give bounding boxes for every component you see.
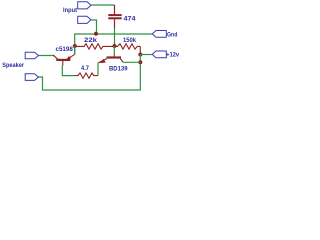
wire Q1 base to R3 bbox=[62, 66, 75, 76]
svg-text:150k: 150k bbox=[123, 37, 136, 44]
node junction divider bbox=[113, 44, 117, 48]
svg-text:BD139: BD139 bbox=[109, 65, 128, 72]
transistor Q1 base pin bbox=[62, 61, 64, 66]
svg-text:22k: 22k bbox=[84, 37, 97, 44]
wire input2 down to gnd line bbox=[92, 20, 97, 34]
capacitor C1 top pin bbox=[114, 5, 116, 14]
port input2 symbol bbox=[78, 16, 91, 23]
port speaker2 symbol bbox=[25, 74, 38, 81]
wire Q1 emitter up to node bbox=[74, 46, 76, 55]
node junction input2/gnd bbox=[94, 32, 98, 36]
transistor Q1 emitter arrow bbox=[66, 56, 71, 60]
transistor Q2 emitter arrow bbox=[100, 59, 106, 63]
port Gnd symbol bbox=[152, 31, 166, 38]
wire capacitor to divider node bbox=[114, 28, 116, 46]
resistor R3 4.7 bbox=[76, 73, 99, 78]
transistor Q2 BD139 base pin bbox=[113, 55, 115, 57]
svg-text:Input: Input bbox=[63, 7, 77, 14]
svg-text:Speaker: Speaker bbox=[2, 62, 24, 69]
transistor Q1 c5198 body bar bbox=[56, 59, 70, 61]
transistor Q2 body bar bbox=[107, 56, 121, 58]
resistor R1 22k bbox=[75, 44, 115, 49]
wire divider node down to Q2 base bbox=[113, 46, 115, 55]
wire +12v port bbox=[140, 54, 152, 56]
capacitor C1 plates bbox=[108, 14, 121, 16]
capacitor C1 bottom pin bbox=[114, 19, 116, 28]
transistor Q2 collector lead bbox=[120, 59, 123, 63]
port speaker1 symbol bbox=[25, 52, 38, 59]
wire +12v rail down and bottom return bbox=[38, 55, 140, 91]
transistor Q1 emitter lead bbox=[66, 54, 75, 60]
resistor R2 150k bbox=[115, 44, 141, 49]
wire R3 up to Q2 emitter bbox=[97, 63, 99, 76]
svg-text:4.7: 4.7 bbox=[81, 66, 90, 72]
transistor Q1 collector lead bbox=[53, 55, 58, 59]
svg-text:+12v: +12v bbox=[166, 51, 179, 58]
svg-text:Gnd: Gnd bbox=[167, 32, 178, 39]
port input1 symbol bbox=[78, 2, 91, 9]
wire Q2 collector to rail bbox=[123, 61, 140, 63]
svg-text:c5198: c5198 bbox=[56, 46, 74, 53]
node junction BD139 collector bbox=[138, 60, 142, 64]
node junction +12v bbox=[138, 53, 142, 57]
wire input1 to capacitor bbox=[91, 4, 115, 6]
svg-text:474: 474 bbox=[124, 15, 136, 22]
wire speaker1 to Q1 collector bbox=[38, 55, 54, 57]
transistor Q2 emitter lead bbox=[98, 59, 107, 63]
wire gnd corner down to node bbox=[74, 33, 76, 54]
wire 150k down to +12v rail bbox=[139, 46, 141, 54]
port +12v symbol bbox=[152, 51, 166, 58]
node junction 22k left bbox=[73, 44, 77, 48]
wire gnd line bbox=[75, 33, 152, 35]
